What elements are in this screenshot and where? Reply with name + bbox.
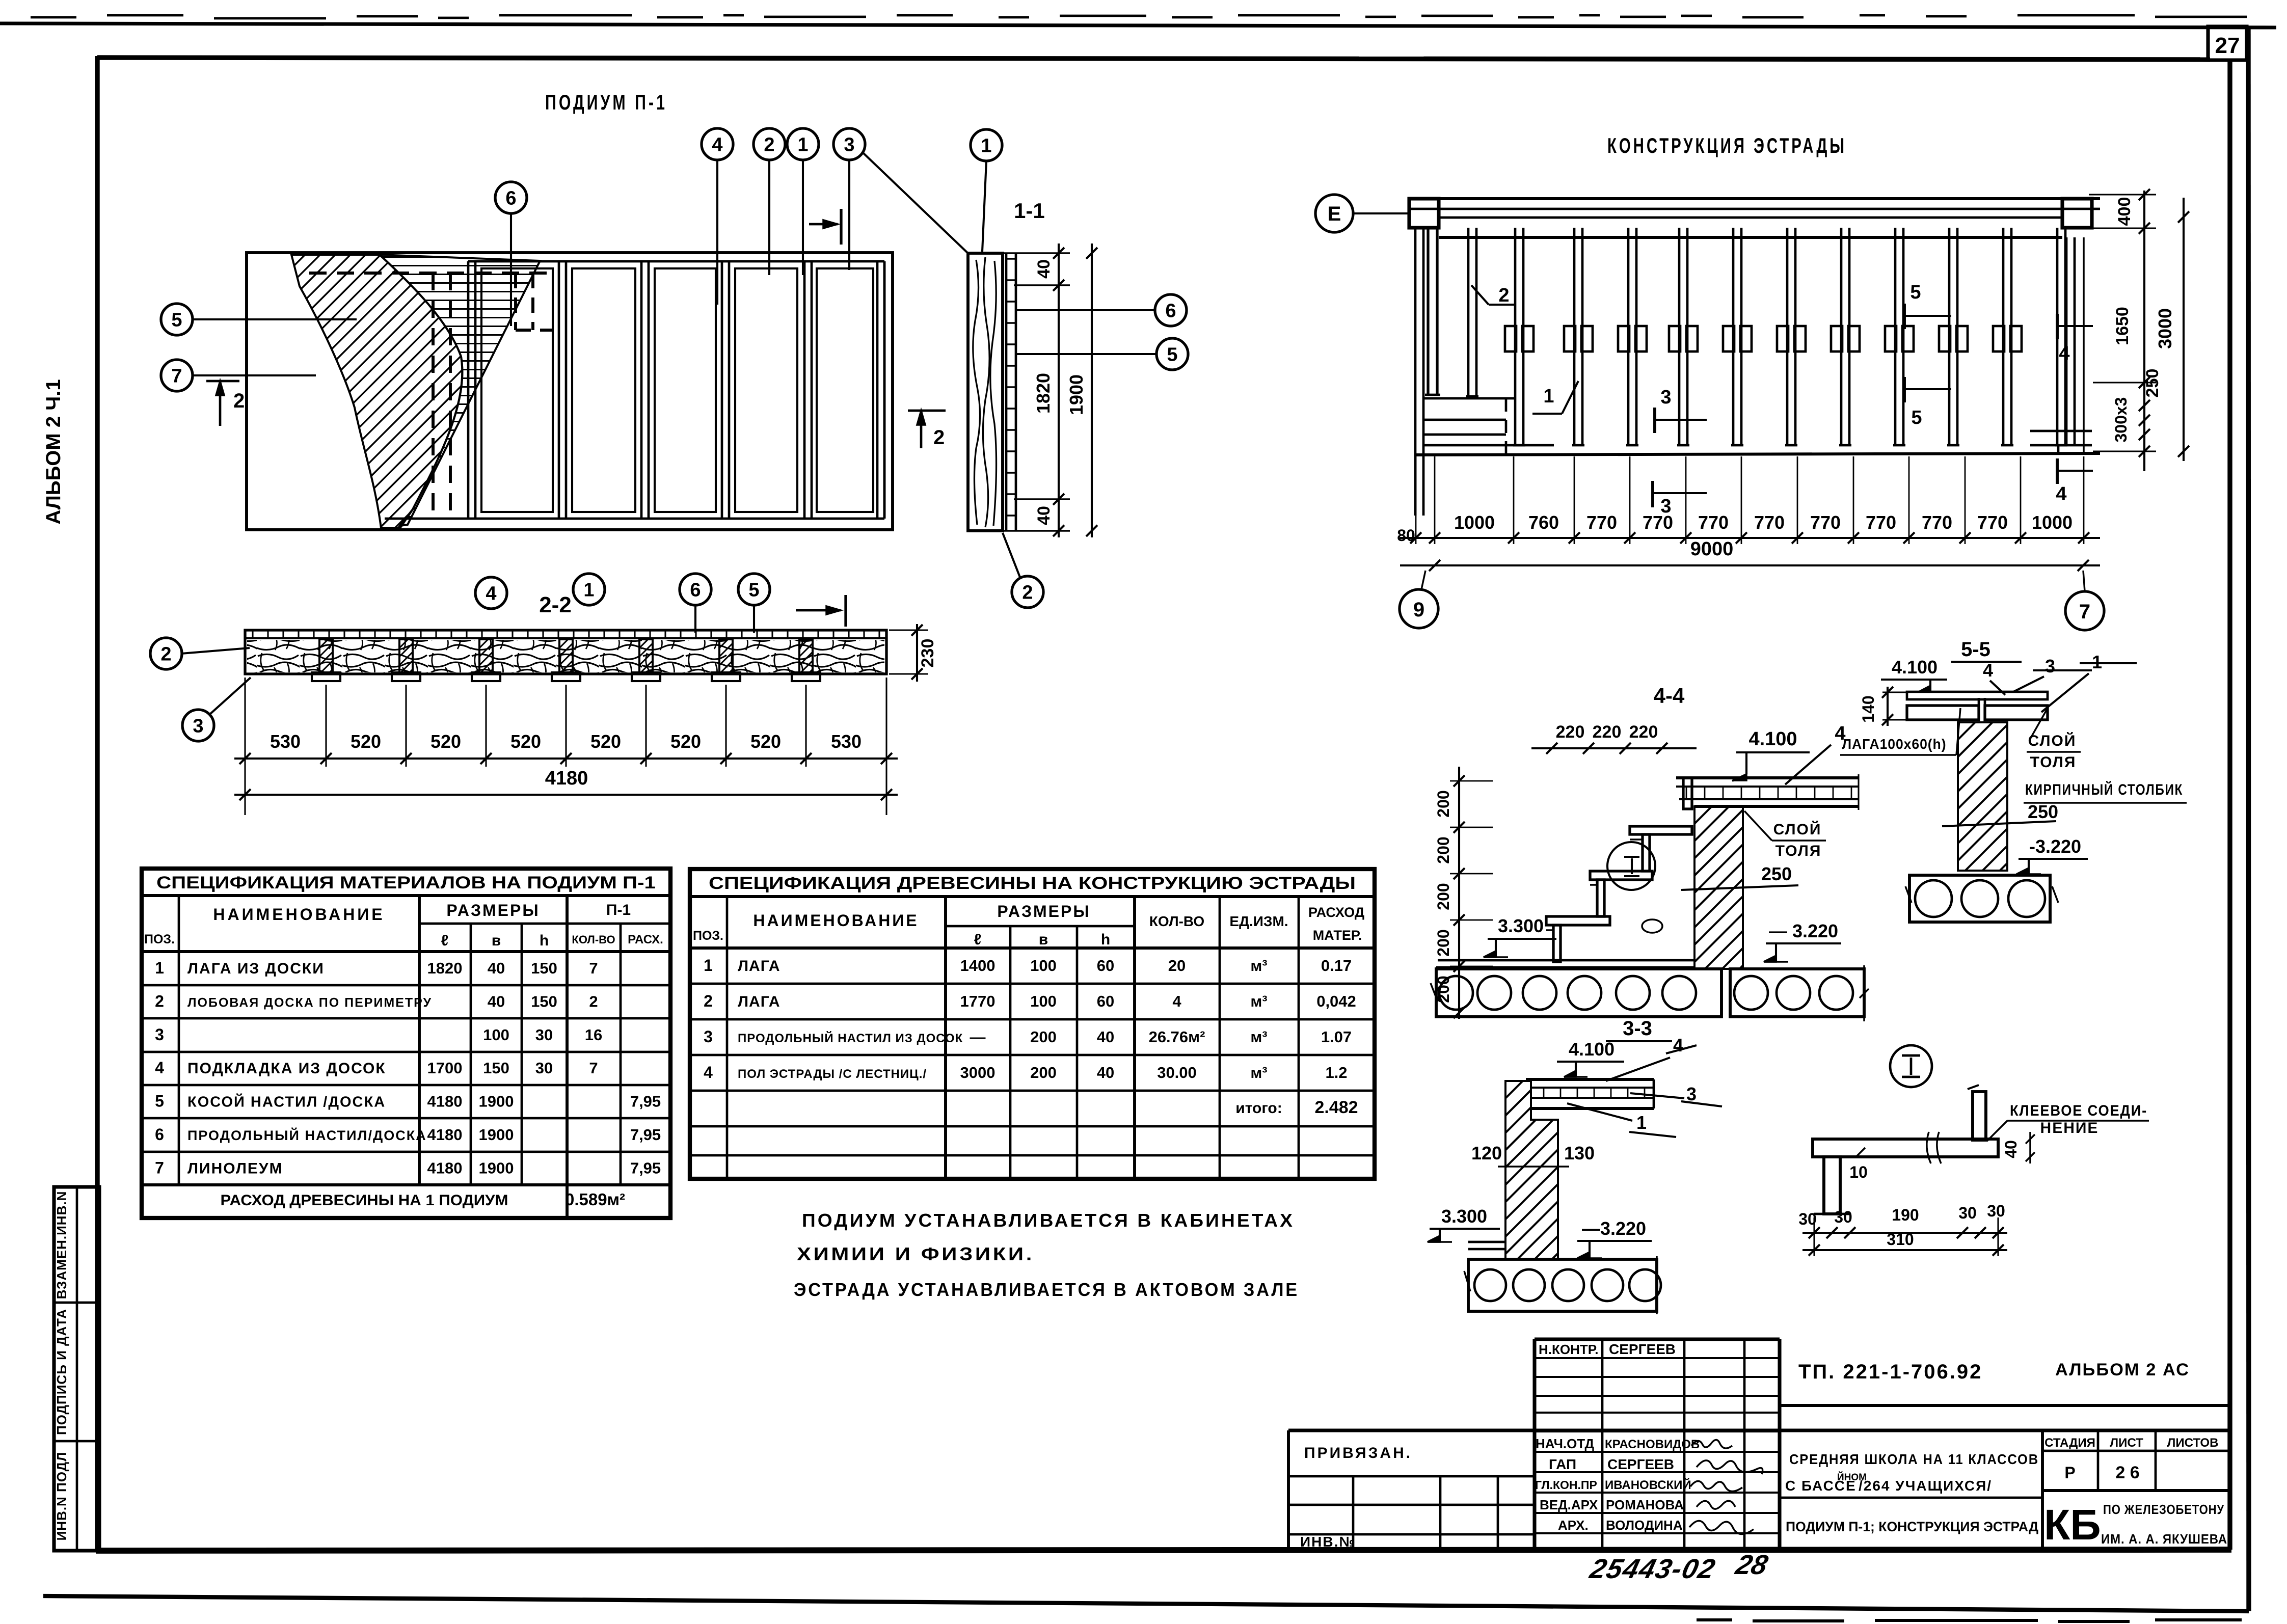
estrada: right side dimension chain 400/1650/250/300x3 [2089, 189, 2162, 471]
svg-text:4-4: 4-4 [1654, 684, 1685, 708]
svg-text:ЛИСТОВ: ЛИСТОВ [2167, 1436, 2219, 1450]
svg-text:100: 100 [1030, 992, 1057, 1010]
svg-text:РАСХ.: РАСХ. [628, 933, 663, 946]
svg-text:ЛОБОВАЯ ДОСКА ПО ПЕРИМЕТРУ: ЛОБОВАЯ ДОСКА ПО ПЕРИМЕТРУ [187, 995, 432, 1010]
axis circle 9 with leader [1400, 571, 1438, 628]
svg-text:—3.220: —3.220 [1582, 1218, 1646, 1239]
svg-text:3000: 3000 [2155, 308, 2175, 349]
title block: project name [1780, 1451, 2042, 1534]
svg-text:150: 150 [483, 1059, 509, 1077]
svg-text:3: 3 [704, 1027, 713, 1046]
svg-text:в: в [492, 932, 501, 949]
estrada: right base [2030, 237, 2092, 455]
svg-text:ИНВ.№: ИНВ.№ [1300, 1534, 1356, 1550]
page top edge line [0, 23, 2276, 28]
svg-text:1650: 1650 [2113, 307, 2132, 345]
svg-text:1000: 1000 [1454, 512, 1495, 533]
svg-text:4180: 4180 [427, 1126, 463, 1144]
svg-text:1: 1 [981, 136, 991, 157]
3-3: label 1 with leader [1567, 1103, 1676, 1137]
detail I: overall dim 310 [1802, 1230, 2007, 1256]
svg-text:100: 100 [483, 1026, 509, 1044]
svg-text:3: 3 [844, 134, 854, 156]
svg-text:м³: м³ [1250, 1028, 1267, 1046]
svg-text:760: 760 [1528, 512, 1559, 533]
svg-text:520: 520 [750, 731, 781, 752]
svg-text:100: 100 [1030, 957, 1057, 975]
svg-text:1: 1 [704, 956, 713, 975]
svg-text:200: 200 [1434, 929, 1452, 956]
svg-text:60: 60 [1097, 992, 1114, 1010]
callout circle 7 with leader [161, 360, 316, 391]
svg-text:4: 4 [704, 1063, 713, 1081]
svg-text:5: 5 [1911, 407, 1922, 428]
detail I: right glued stud [1968, 1085, 1986, 1140]
svg-text:КБ: КБ [2044, 1501, 2101, 1549]
3-3: label 3 with leader [1630, 1084, 1722, 1106]
svg-text:150: 150 [531, 959, 557, 977]
svg-text:итого:: итого: [1235, 1100, 1282, 1117]
svg-text:40: 40 [1097, 1064, 1114, 1081]
svg-text:7: 7 [589, 1059, 598, 1077]
4-4: floor slab with hollow cores (left) [1431, 969, 1721, 1017]
detail I: left support post [1814, 1157, 1850, 1214]
plan view: podium P-1 outer frame [247, 253, 893, 530]
svg-text:м³: м³ [1250, 1064, 1267, 1081]
section cut mark 2 (right) [908, 411, 946, 449]
svg-text:40: 40 [1034, 506, 1054, 525]
svg-text:Н.КОНТР.: Н.КОНТР. [1539, 1342, 1598, 1357]
4-4: top dimension chain 220x3 [1531, 722, 1697, 754]
svg-text:40: 40 [1034, 259, 1054, 279]
svg-text:770: 770 [1698, 512, 1729, 533]
svg-text:РАЗМЕРЫ: РАЗМЕРЫ [446, 901, 540, 919]
estrada: left wall [1415, 227, 1440, 516]
svg-text:м³: м³ [1250, 992, 1267, 1010]
svg-text:3.300: 3.300 [1441, 1206, 1487, 1227]
sheet number box "27" [2208, 26, 2247, 60]
svg-text:2: 2 [1498, 285, 1509, 306]
svg-text:1770: 1770 [960, 992, 995, 1010]
svg-text:9: 9 [1413, 599, 1424, 621]
section 2-2: deck strip [245, 630, 886, 674]
section 1-1: dimension chain 40/1820/40 [1003, 243, 1070, 537]
scan noise: top edge dashes [31, 15, 2247, 18]
svg-text:ВЗАМЕН.ИНВ.N: ВЗАМЕН.ИНВ.N [54, 1191, 69, 1300]
estrada: section mark 5-5 (upper) [1904, 282, 1951, 329]
svg-text:7: 7 [589, 959, 598, 977]
svg-text:—: — [970, 1028, 986, 1046]
svg-text:ℓ: ℓ [441, 932, 449, 949]
callout circle 6 with leader (section 1-1) [1016, 294, 1187, 326]
svg-text:КОСОЙ НАСТИЛ /ДОСКА: КОСОЙ НАСТИЛ /ДОСКА [187, 1093, 386, 1111]
plan: lag joists (double vertical lines) and bay panels [468, 261, 884, 519]
specification table 1: materials for podium P-1 [142, 869, 670, 1218]
svg-text:СРЕДНЯЯ ШКОЛА НА 11 КЛАССОВ: СРЕДНЯЯ ШКОЛА НА 11 КЛАССОВ [1789, 1451, 2039, 1467]
svg-text:СПЕЦИФИКАЦИЯ МАТЕРИАЛОВ НА П: СПЕЦИФИКАЦИЯ МАТЕРИАЛОВ НА ПОДИУМ П-1 [156, 873, 656, 892]
svg-text:ЛИНОЛЕУМ: ЛИНОЛЕУМ [187, 1160, 283, 1177]
svg-text:28: 28 [1732, 1549, 1771, 1580]
section 1-1: edge board with wood grain [968, 253, 1003, 531]
svg-text:4180: 4180 [545, 768, 588, 789]
svg-text:— 3.220: — 3.220 [1769, 921, 1838, 941]
title block: signatures (handwritten) [1689, 1440, 1763, 1534]
svg-text:м³: м³ [1250, 957, 1267, 975]
svg-text:1820: 1820 [1033, 373, 1054, 414]
svg-text:250: 250 [2028, 801, 2058, 822]
svg-text:27: 27 [2215, 33, 2240, 58]
3-3: level mark -3.220 [1577, 1218, 1652, 1258]
svg-text:770: 770 [1810, 512, 1841, 533]
plan: dashed hidden lines [309, 273, 553, 516]
svg-text:ПОДИУМ П-1: ПОДИУМ П-1 [545, 90, 667, 114]
sheet frame: right inner border [2227, 61, 2232, 1550]
section 5-5 title [1951, 638, 2022, 662]
svg-text:6: 6 [1165, 301, 1176, 322]
svg-text:ИМ. А. А. ЯКУШЕВА: ИМ. А. А. ЯКУШЕВА [2101, 1531, 2227, 1547]
svg-text:ЛАГА: ЛАГА [738, 993, 781, 1010]
svg-text:ЛАГА: ЛАГА [738, 958, 781, 975]
svg-text:530: 530 [270, 731, 301, 752]
5-5: floor slab with hollow cores [1905, 875, 2058, 922]
svg-text:200: 200 [1030, 1064, 1057, 1081]
svg-text:1: 1 [797, 134, 808, 156]
callout circle 5 with leader (section 2-2) [738, 574, 770, 633]
svg-text:10: 10 [1849, 1163, 1868, 1181]
estrada: right end block [2062, 199, 2092, 228]
callout circle 3 with leader (section 2-2) [182, 678, 251, 741]
svg-text:4: 4 [2056, 483, 2066, 505]
svg-text:0.589м²: 0.589м² [565, 1190, 625, 1209]
5-5: label 4 with leader [1983, 660, 2005, 695]
svg-text:520: 520 [431, 731, 461, 752]
callout circle 4 with leader [702, 128, 733, 305]
callout circle 4 (section 2-2) [475, 577, 507, 609]
4-4: estrada floor slab band [1676, 774, 1859, 810]
5-5: label 3 with leader [2013, 656, 2092, 692]
svg-text:1: 1 [2092, 652, 2102, 672]
4-4: level mark 4.100 [1732, 728, 1810, 781]
3-3: deck band [1526, 1079, 1654, 1108]
5-5: thickness dimension 140 [1859, 687, 1908, 726]
callout circle 1 (section 2-2) [573, 574, 605, 605]
svg-text:2.482: 2.482 [1314, 1098, 1358, 1117]
svg-text:НАИМЕНОВАНИЕ: НАИМЕНОВАНИЕ [213, 905, 385, 924]
svg-text:ЕД.ИЗМ.: ЕД.ИЗМ. [1229, 913, 1288, 929]
svg-text:6: 6 [690, 580, 701, 601]
callout circle 6 with leader (section 2-2) [680, 574, 711, 633]
svg-text:4: 4 [1673, 1035, 1683, 1055]
svg-text:400: 400 [2115, 197, 2134, 226]
svg-text:ПРОДОЛЬНЫЙ НАСТИЛ ИЗ ДОСОК: ПРОДОЛЬНЫЙ НАСТИЛ ИЗ ДОСОК [738, 1031, 963, 1045]
callout circle 5 with leader (section 1-1) [1016, 338, 1188, 370]
svg-text:20: 20 [1168, 957, 1186, 975]
table 2 header text [693, 874, 1364, 948]
section 2-2: overall dimension 4180 [234, 768, 898, 800]
svg-text:1: 1 [155, 959, 164, 977]
svg-text:1900: 1900 [479, 1159, 514, 1177]
section 2-2: dimension chain 530/520... [234, 678, 898, 815]
callout circle 2 with leader (section 2-2) [150, 638, 250, 669]
svg-text:СЕРГЕЕВ: СЕРГЕЕВ [1607, 1456, 1674, 1472]
callout circle 2 with leader (section 1-1) [1003, 533, 1043, 608]
4-4: floor slab with hollow cores (right) [1730, 965, 1869, 1021]
svg-text:5: 5 [171, 310, 182, 331]
detail I: thickness dim 40 [2002, 1132, 2035, 1163]
svg-text:200: 200 [1434, 883, 1452, 910]
estrada: left base steps [1423, 398, 1554, 455]
svg-text:770: 770 [1754, 512, 1785, 533]
svg-text:7,95: 7,95 [630, 1159, 661, 1177]
svg-text:520: 520 [351, 731, 381, 752]
sheet frame: left border [95, 56, 99, 1552]
svg-text:770: 770 [1922, 512, 1952, 533]
svg-text:РОМАНОВА: РОМАНОВА [1606, 1497, 1684, 1512]
svg-text:6: 6 [505, 188, 516, 209]
svg-text:7,95: 7,95 [630, 1093, 661, 1111]
svg-text:770: 770 [1586, 512, 1617, 533]
detail I: dim 10 [1849, 1148, 1868, 1181]
3-3: level mark 3.300 [1428, 1206, 1500, 1242]
svg-text:190: 190 [1892, 1206, 1919, 1224]
svg-text:4: 4 [1172, 992, 1181, 1010]
4-4: base floor line [1436, 960, 1694, 967]
table 1 rows text [155, 959, 661, 1209]
5-5: level mark -3.220 [2016, 836, 2088, 874]
svg-text:1900: 1900 [1066, 374, 1087, 415]
svg-text:30: 30 [1958, 1204, 1977, 1222]
svg-text:2: 2 [589, 992, 598, 1010]
estrada: label 1 with leader [1532, 381, 1578, 414]
4-4: level mark 3.300 [1484, 915, 1556, 957]
svg-text:7: 7 [171, 366, 182, 387]
svg-text:КОЛ-ВО: КОЛ-ВО [572, 933, 615, 946]
svg-text:4: 4 [2059, 343, 2069, 364]
svg-text:770: 770 [1643, 512, 1673, 533]
svg-text:П-1: П-1 [606, 902, 631, 918]
title block: privjazan box [1288, 1430, 2230, 1550]
svg-text:770: 770 [1977, 512, 2008, 533]
estrada: section mark 3-3 (lower) [1653, 481, 1707, 517]
specification table 2: timber for estrada [690, 869, 1375, 1179]
svg-text:200: 200 [1030, 1028, 1057, 1046]
svg-text:2: 2 [1022, 582, 1033, 604]
svg-text:ЛАГА ИЗ ДОСКИ: ЛАГА ИЗ ДОСКИ [187, 960, 325, 977]
estrada: section mark 4-4 (upper) [2057, 314, 2093, 364]
svg-text:ПО ЖЕЛЕЗОБЕТОНУ: ПО ЖЕЛЕЗОБЕТОНУ [2103, 1502, 2224, 1517]
table 2 rows text [704, 956, 1358, 1117]
plan: perimeter inner line [385, 261, 884, 519]
estrada: label 2 with leader [1471, 285, 1516, 306]
sheet frame: bottom border [96, 1550, 2231, 1551]
svg-text:5: 5 [155, 1092, 164, 1111]
svg-text:4: 4 [1983, 660, 1993, 681]
5-5: note кирпичный столбик [2024, 781, 2187, 803]
handwritten archive number [1586, 1549, 1771, 1584]
svg-text:НЕНИЕ: НЕНИЕ [2040, 1120, 2099, 1136]
3-3: level mark 4.100 [1557, 1039, 1624, 1077]
4-4: small hole ellipse [1642, 919, 1662, 933]
svg-text:РАСХОД: РАСХОД [1308, 905, 1364, 920]
svg-text:4.100: 4.100 [1569, 1039, 1615, 1060]
svg-text:КРАСНОВИДОВ: КРАСНОВИДОВ [1605, 1438, 1700, 1451]
svg-text:4: 4 [155, 1059, 164, 1077]
svg-text:6: 6 [155, 1125, 164, 1144]
svg-text:Е: Е [1328, 203, 1341, 225]
svg-text:ПОДПИСЬ И ДАТА: ПОДПИСЬ И ДАТА [54, 1309, 69, 1435]
5-5: note слой толя [2027, 709, 2081, 771]
section 1-1: flooring strip edge [1006, 253, 1016, 531]
svg-text:0,042: 0,042 [1316, 992, 1356, 1010]
svg-text:7: 7 [155, 1158, 164, 1177]
title block: document number [1780, 1360, 2230, 1405]
svg-text:4.100: 4.100 [1892, 657, 1938, 678]
svg-text:2: 2 [155, 992, 164, 1010]
svg-text:ℓ: ℓ [974, 931, 982, 948]
svg-text:3: 3 [2045, 656, 2055, 676]
svg-text:520: 520 [510, 731, 541, 752]
svg-text:30: 30 [535, 1026, 553, 1044]
svg-text:1: 1 [583, 580, 594, 601]
svg-text:200: 200 [1434, 790, 1452, 817]
callout circle 1 over section 1-1 [971, 129, 1002, 252]
svg-text:25443-02: 25443-02 [1586, 1553, 1719, 1584]
callout circle 1 with leader [787, 128, 819, 275]
estrada: vertical slats [1466, 228, 2067, 445]
svg-text:ТОЛЯ: ТОЛЯ [1775, 843, 1822, 859]
svg-text:30: 30 [1834, 1208, 1852, 1226]
svg-text:РАСХОД ДРЕВЕСИНЫ НА 1 ПОДИУМ: РАСХОД ДРЕВЕСИНЫ НА 1 ПОДИУМ [221, 1192, 508, 1209]
svg-text:9000: 9000 [1690, 538, 1734, 560]
svg-text:5: 5 [1910, 282, 1921, 303]
section cut mark 1 (bottom) [796, 595, 846, 627]
svg-text:1700: 1700 [427, 1059, 463, 1077]
section 3-3 title [1606, 1017, 1672, 1041]
svg-text:ГЛ.КОН.ПР: ГЛ.КОН.ПР [1535, 1478, 1597, 1492]
svg-text:0.17: 0.17 [1321, 957, 1352, 975]
4-4: left dimension chain 200x5 [1434, 767, 1493, 1019]
svg-text:130: 130 [1564, 1143, 1595, 1163]
estrada: section mark 3-3 (upper) [1655, 387, 1707, 433]
svg-text:ЛАГА100х60(h): ЛАГА100х60(h) [1842, 736, 1947, 752]
3-3: left floor band [1468, 1242, 1506, 1249]
svg-text:СЛОЙ: СЛОЙ [1773, 821, 1822, 838]
svg-text:/264 УЧАЩИХСЯ/: /264 УЧАЩИХСЯ/ [1859, 1478, 1992, 1494]
page right outer edge [2248, 28, 2249, 1611]
svg-text:h: h [540, 932, 549, 949]
svg-text:ТП. 221-1-706.92: ТП. 221-1-706.92 [1798, 1361, 1982, 1383]
3-3: floor slab with hollow cores [1464, 1256, 1661, 1314]
svg-text:1400: 1400 [960, 957, 995, 975]
svg-text:2: 2 [764, 134, 774, 156]
svg-text:ПОЗ.: ПОЗ. [144, 932, 175, 946]
svg-text:СЛОЙ: СЛОЙ [2028, 732, 2077, 749]
svg-text:ВОЛОДИНА: ВОЛОДИНА [1606, 1518, 1683, 1533]
scan noise: bottom edge dashes [1697, 1620, 2242, 1621]
svg-text:ПРИВЯЗАН.: ПРИВЯЗАН. [1304, 1445, 1412, 1461]
svg-text:1900: 1900 [479, 1126, 514, 1144]
svg-text:220: 220 [1629, 722, 1658, 742]
svg-text:250: 250 [1761, 863, 1792, 884]
svg-text:520: 520 [670, 731, 701, 752]
svg-text:в: в [1039, 931, 1048, 948]
svg-text:2 6: 2 6 [2115, 1463, 2139, 1482]
5-5: level mark 4.100 [1881, 657, 1947, 692]
estrada: dimension chain 80/1000/760/770... [1397, 456, 2100, 545]
svg-text:250: 250 [2143, 369, 2162, 398]
section cut mark 2 (left) [206, 381, 245, 426]
svg-text:ИНВ.N ПОДЛ: ИНВ.N ПОДЛ [54, 1452, 69, 1541]
svg-text:КОЛ-ВО: КОЛ-ВО [1149, 913, 1204, 929]
svg-text:КОНСТРУКЦИЯ ЭСТРАДЫ: КОНСТРУКЦИЯ ЭСТРАДЫ [1607, 133, 1847, 157]
4-4: note слой толя [1744, 811, 1826, 859]
svg-text:3-3: 3-3 [1623, 1017, 1652, 1040]
svg-text:ЭСТРАДА УСТАНАВЛИВАЕТСЯ В А: ЭСТРАДА УСТАНАВЛИВАЕТСЯ В АКТОВОМ ЗАЛЕ [794, 1279, 1299, 1300]
detail I: note клеевое соединение [1987, 1102, 2149, 1141]
estrada: overall height dimension 3000 [2155, 198, 2189, 461]
svg-text:520: 520 [590, 731, 621, 752]
callout circle 3 with leaders [833, 128, 970, 270]
section 1-1: overall dimension 1900 [1066, 243, 1097, 537]
svg-text:ГАП: ГАП [1549, 1456, 1576, 1472]
axis marker circle Е with leader [1315, 195, 1409, 232]
5-5: deck boards [1907, 692, 2048, 720]
svg-text:МАТЕР.: МАТЕР. [1313, 928, 1362, 943]
svg-text:ПРОДОЛЬНЫЙ НАСТИЛ/ДОСКА: ПРОДОЛЬНЫЙ НАСТИЛ/ДОСКА [187, 1127, 427, 1143]
svg-text:КЛЕЕВОЕ СОЕДИ-: КЛЕЕВОЕ СОЕДИ- [2010, 1102, 2147, 1119]
svg-text:2: 2 [933, 426, 945, 449]
svg-text:1: 1 [1636, 1112, 1647, 1133]
sheet frame: top border [97, 58, 2210, 60]
svg-text:40: 40 [488, 992, 505, 1010]
left margin stamp strip [54, 1187, 99, 1551]
page bottom outer edge [43, 1596, 2249, 1611]
svg-text:СЕРГЕЕВ: СЕРГЕЕВ [1609, 1341, 1676, 1357]
detail I: plank with break marks [1813, 1132, 1998, 1163]
5-5: pier width label 250 [1942, 801, 2058, 826]
svg-text:2-2: 2-2 [539, 592, 572, 617]
svg-text:ПОДИУМ УСТАНАВЛИВАЕТСЯ В КА: ПОДИУМ УСТАНАВЛИВАЕТСЯ В КАБИНЕТАХ [802, 1210, 1295, 1231]
svg-text:4: 4 [486, 583, 496, 605]
svg-text:7: 7 [2079, 601, 2090, 623]
svg-text:ВЕД.АРХ: ВЕД.АРХ [1540, 1497, 1598, 1512]
estrada: top chord beams [1409, 199, 2100, 237]
svg-text:3: 3 [193, 716, 203, 737]
svg-text:Р: Р [2064, 1464, 2075, 1482]
svg-text:СТАДИЯ: СТАДИЯ [2044, 1436, 2095, 1450]
svg-text:1820: 1820 [427, 959, 463, 977]
svg-text:4180: 4180 [427, 1159, 463, 1177]
3-3: width labels 120 / 130 [1471, 1143, 1595, 1167]
svg-text:2: 2 [233, 390, 245, 412]
svg-text:2: 2 [160, 644, 171, 665]
svg-text:26.76м²: 26.76м² [1149, 1028, 1205, 1046]
svg-text:150: 150 [531, 992, 557, 1010]
svg-text:310: 310 [1887, 1230, 1914, 1249]
svg-text:140: 140 [1859, 695, 1877, 722]
svg-text:ТОЛЯ: ТОЛЯ [2030, 754, 2077, 771]
svg-text:АРХ.: АРХ. [1558, 1518, 1589, 1533]
callout circle 6 with leader [495, 182, 527, 326]
svg-text:ЛИСТ: ЛИСТ [2110, 1436, 2143, 1450]
estrada: overall dimension 9000 [1400, 538, 2100, 571]
svg-text:40: 40 [488, 959, 505, 977]
section 2-2: height dimension 230 [889, 624, 937, 682]
svg-text:4180: 4180 [427, 1093, 463, 1111]
5-5: label 1 with leader [2041, 652, 2137, 712]
svg-text:3: 3 [155, 1025, 164, 1044]
svg-text:7,95: 7,95 [630, 1126, 661, 1144]
